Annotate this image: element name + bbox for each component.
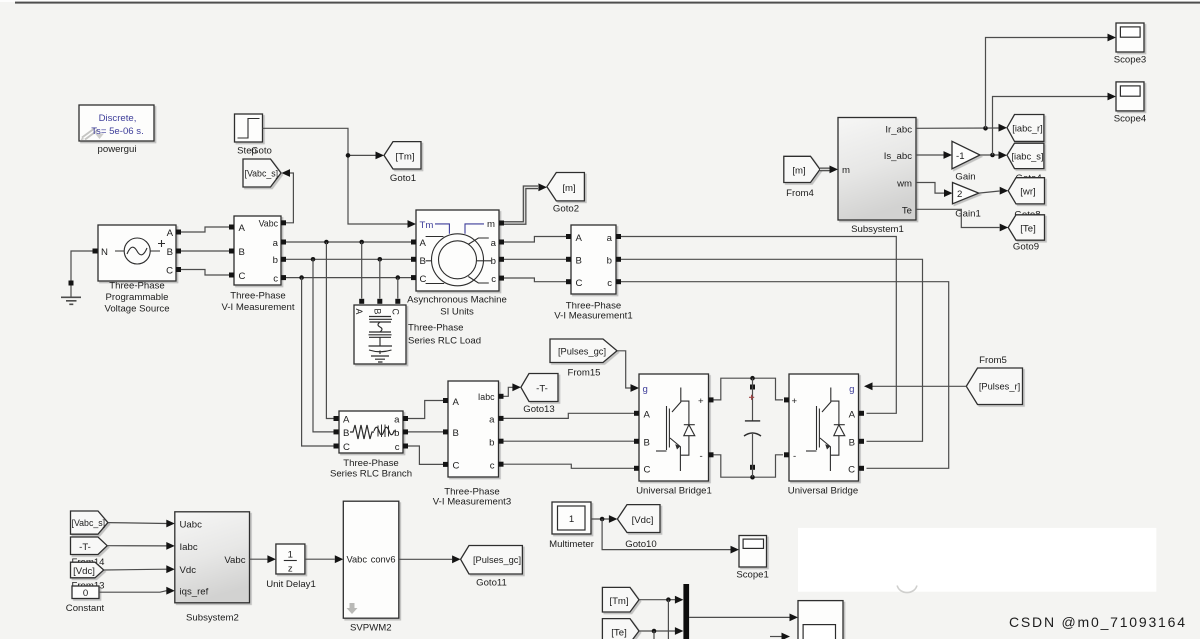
- svg-text:C: C: [576, 278, 583, 289]
- svg-text:Multimeter: Multimeter: [549, 539, 595, 550]
- svg-text:[Tm]: [Tm]: [395, 152, 414, 163]
- wire gain2 to goto wr: [979, 191, 1000, 193]
- svg-text:SVPWM2: SVPWM2: [350, 623, 392, 634]
- wire drop row b to load B: [379, 259, 381, 298]
- wire unit delay to svpwm2: [305, 558, 335, 560]
- wires from tags to subsystem2: [108, 522, 167, 525]
- wire branch b to VIM3 B: [408, 431, 443, 433]
- svg-text:Three-Phase: Three-Phase: [343, 458, 398, 469]
- svg-text:B: B: [453, 428, 459, 439]
- goto2 tag m: [547, 173, 585, 201]
- svg-text:[m]: [m]: [792, 166, 805, 177]
- from tag Tm (bottom): [602, 587, 639, 612]
- svg-text:[wr]: [wr]: [1020, 187, 1035, 198]
- scope5 block (bottom, clipped): [798, 601, 843, 639]
- svg-text:Scope3: Scope3: [1114, 55, 1147, 66]
- svg-text:B: B: [644, 438, 650, 449]
- svg-text:iqs_ref: iqs_ref: [180, 587, 209, 598]
- wire source A to VIM A: [181, 227, 229, 232]
- asynchronous machine SI units block: [416, 210, 499, 291]
- svg-text:C: C: [391, 309, 401, 316]
- svg-text:B: B: [373, 309, 383, 315]
- svg-text:g: g: [643, 384, 648, 395]
- wire VIM1 a to bridge2 A: [621, 237, 896, 414]
- svg-text:N: N: [101, 247, 108, 258]
- VIM1 port squares: [566, 234, 571, 239]
- svg-text:a: a: [607, 233, 613, 244]
- powergui sample time text: [91, 113, 144, 137]
- svg-text:A: A: [849, 410, 856, 421]
- svg-text:C: C: [166, 266, 173, 277]
- from15 tag Pulses_gc: [550, 339, 617, 363]
- svg-text:C: C: [453, 461, 460, 472]
- svg-text:c: c: [490, 460, 495, 471]
- goto11 tag Pulses_gc: [461, 546, 523, 575]
- svg-text:Universal Bridge: Universal Bridge: [788, 486, 858, 497]
- scope4 block: [1116, 82, 1144, 111]
- svg-text:Gain1: Gain1: [955, 209, 981, 220]
- svg-text:Ts= 5e-06 s.: Ts= 5e-06 s.: [91, 126, 144, 137]
- goto10 tag Vdc: [617, 505, 660, 533]
- source port squares: [93, 249, 98, 254]
- svg-text:[iabc_s]: [iabc_s]: [1011, 151, 1043, 161]
- VIM3 port squares: [443, 398, 448, 403]
- ground: [61, 281, 81, 305]
- svg-text:Goto2: Goto2: [553, 204, 579, 215]
- svg-text:[Tm]: [Tm]: [609, 596, 628, 607]
- from tag Te (bottom): [602, 619, 639, 639]
- wire VIM3 Iabc to goto13: [504, 387, 513, 396]
- svg-text:From5: From5: [979, 355, 1007, 366]
- svg-text:Voltage Source: Voltage Source: [104, 304, 169, 315]
- goto1 tag Tm: [384, 142, 421, 169]
- svg-text:A: A: [453, 397, 460, 408]
- svg-text:z: z: [288, 564, 293, 575]
- svg-text:+: +: [792, 396, 798, 407]
- bridge1 port squares: [634, 411, 639, 416]
- svg-text:a: a: [489, 415, 495, 426]
- step block: [235, 114, 263, 142]
- svg-text:g: g: [849, 384, 854, 395]
- VIM port squares: [229, 225, 234, 230]
- wire VIM Vabc to goto Vabc_s: [284, 173, 294, 223]
- svg-text:Discrete,: Discrete,: [99, 113, 137, 124]
- svg-text:Subsystem2: Subsystem2: [186, 613, 239, 624]
- svg-text:b: b: [273, 255, 278, 266]
- wire Te to goto Te9: [916, 209, 1000, 227]
- svg-text:b: b: [491, 256, 496, 267]
- svg-text:B: B: [343, 428, 349, 439]
- machine icon Tm lead: [435, 224, 449, 234]
- powergui overlay pencil icon: [81, 128, 105, 141]
- scope3 block: [1116, 23, 1144, 52]
- wire drop row c to load C: [397, 278, 399, 299]
- svg-text:C: C: [239, 271, 246, 282]
- svg-text:Goto11: Goto11: [476, 578, 507, 589]
- subsystem2 block: [175, 512, 250, 603]
- svg-text:m: m: [487, 219, 495, 230]
- goto tag iabc_r: [1007, 115, 1044, 142]
- svg-text:V-I Measurement3: V-I Measurement3: [433, 497, 511, 508]
- wire VIM3 a to bridge1 A: [504, 413, 635, 418]
- svg-text:B: B: [239, 247, 245, 258]
- wire VIM1 b to bridge2 B: [621, 259, 923, 441]
- svg-text:Vabc: Vabc: [224, 555, 245, 566]
- svg-text:+: +: [698, 396, 704, 407]
- svg-text:Unit Delay1: Unit Delay1: [266, 579, 316, 590]
- wire wm to gain 2: [916, 183, 944, 194]
- bridge2 port squares: [784, 397, 789, 402]
- branch port squares: [334, 416, 339, 421]
- svg-text:Tm: Tm: [420, 220, 434, 231]
- svg-text:Gain: Gain: [955, 172, 975, 183]
- svg-text:B: B: [420, 256, 426, 267]
- from tag Vabc_s (bottom left): [71, 511, 108, 534]
- powergui block: [79, 105, 154, 141]
- wire mux to scope5: [689, 616, 789, 618]
- machine icon rotor stubs: [468, 238, 489, 245]
- top white strip: [0, 0, 1200, 2]
- wire row b VIM to machine B: [286, 258, 411, 260]
- svg-text:Series RLC Branch: Series RLC Branch: [330, 469, 412, 480]
- from4 tag m: [784, 156, 820, 182]
- svg-text:B: B: [576, 256, 582, 267]
- wire gain-1 to goto iabc_s and scope4: [980, 154, 999, 156]
- wire branch a to VIM3 A: [408, 401, 443, 419]
- wire source C to VIM C: [181, 270, 229, 276]
- svg-text:A: A: [644, 410, 651, 421]
- svg-text:C: C: [644, 465, 651, 476]
- machine port squares: [411, 240, 416, 245]
- svg-text:conv6: conv6: [371, 555, 396, 565]
- svg-text:[Pulses_gc]: [Pulses_gc]: [558, 347, 606, 357]
- wire step to goto1 and machine Tm: [263, 128, 349, 155]
- svg-text:Vabc: Vabc: [347, 555, 368, 565]
- scope1 block: [739, 536, 767, 568]
- goto tag wr: [1008, 178, 1044, 204]
- wire from15 to bridge1 g: [617, 351, 631, 388]
- branch R-L icon: [350, 425, 396, 440]
- gain 2 triangle: [953, 183, 979, 204]
- svg-text:Is_abc: Is_abc: [884, 151, 912, 162]
- from tag Vdc (bottom left): [71, 562, 104, 578]
- wire Te tag to mux: [639, 630, 675, 632]
- three-phase V-I measurement block: [234, 216, 281, 285]
- svg-text:[Pulses_gc]: [Pulses_gc]: [473, 555, 521, 565]
- svg-text:[Pulses_r]: [Pulses_r]: [979, 382, 1020, 392]
- svg-text:[iabc_r]: [iabc_r]: [1012, 124, 1043, 134]
- from5 tag Pulses_r: [966, 368, 1022, 405]
- constant block: [72, 586, 99, 599]
- wire machine c to VIM1 C: [504, 278, 566, 282]
- svg-text:CSDN @m0_71093164: CSDN @m0_71093164: [1009, 614, 1185, 630]
- svg-text:Subsystem1: Subsystem1: [851, 224, 904, 235]
- wire VIM3 b to bridge1 B: [504, 440, 635, 442]
- svg-text:Three-Phase: Three-Phase: [408, 323, 463, 334]
- bridge1 IGBT+diode icon: [656, 388, 695, 472]
- svg-text:Iabc: Iabc: [180, 542, 198, 553]
- svg-text:c: c: [273, 274, 278, 285]
- svg-text:Scope1: Scope1: [736, 570, 769, 581]
- subsystem1 block: [838, 118, 916, 221]
- unit delay block: [276, 544, 305, 575]
- svg-text:Three-Phase: Three-Phase: [109, 281, 164, 292]
- svg-text:A: A: [576, 233, 583, 244]
- svg-text:A: A: [420, 238, 427, 249]
- goto tag Vabc_s (upper): [243, 159, 281, 187]
- svg-text:Ir_abc: Ir_abc: [885, 124, 912, 135]
- three-phase programmable voltage source block: [98, 225, 176, 281]
- svg-text:Asynchronous Machine: Asynchronous Machine: [407, 295, 507, 306]
- wire from5 to bridge2 g: [873, 385, 967, 387]
- svg-text:Scope4: Scope4: [1114, 114, 1147, 125]
- svg-text:[Vabc_s]: [Vabc_s]: [72, 518, 106, 528]
- wire Tm tag to mux: [639, 599, 675, 601]
- mux bar: [683, 584, 689, 639]
- junction dots on rows: [324, 240, 329, 245]
- svg-text:c: c: [395, 442, 400, 453]
- svg-text:B: B: [167, 247, 173, 258]
- svg-text:wm: wm: [896, 179, 912, 190]
- svg-text:a: a: [273, 238, 279, 249]
- machine icon m lead: [465, 224, 484, 234]
- wire drop row a to RLC branch A: [326, 242, 333, 419]
- load RLC icon: [369, 317, 393, 363]
- machine icon circles: [432, 234, 484, 286]
- wire drop row c to RLC branch C: [302, 278, 334, 446]
- universal bridge1 block: [639, 374, 709, 481]
- wire second input to bottom scope: [770, 636, 782, 638]
- wire N to ground: [71, 251, 93, 281]
- svg-text:A: A: [167, 228, 174, 239]
- svg-text:B: B: [849, 438, 855, 449]
- svg-text:Three-Phase: Three-Phase: [230, 291, 285, 302]
- svg-text:c: c: [607, 278, 612, 289]
- svg-text:[Vabc_s]: [Vabc_s]: [245, 168, 279, 178]
- goto tag iabc_s: [1007, 143, 1044, 168]
- wire svpwm2 to goto11: [399, 558, 452, 560]
- svg-text:SI Units: SI Units: [440, 307, 474, 318]
- gain -1 triangle: [952, 141, 980, 169]
- wire drop row a to load A: [361, 242, 363, 299]
- svg-text:1: 1: [569, 514, 574, 525]
- svg-text:0: 0: [83, 588, 88, 599]
- svg-text:C: C: [420, 274, 427, 285]
- svg-text:2: 2: [957, 189, 962, 200]
- wire drop row b to RLC branch B: [313, 259, 334, 432]
- three-phase series RLC branch block: [339, 411, 403, 453]
- wire multimeter to goto10 and scope1: [591, 518, 609, 520]
- universal bridge block (right): [789, 374, 859, 481]
- wire machine b to VIM1 B: [504, 258, 566, 260]
- svg-text:m: m: [842, 165, 850, 176]
- three-phase V-I measurement1 block: [571, 225, 616, 294]
- wire Is_abc to gain -1: [916, 154, 944, 156]
- wire VIM3 c to bridge1 C: [504, 464, 635, 468]
- svg-text:Goto1: Goto1: [390, 173, 416, 184]
- svg-text:Vdc: Vdc: [180, 565, 197, 576]
- svg-text:[Te]: [Te]: [1020, 224, 1035, 235]
- svg-text:Goto13: Goto13: [523, 404, 554, 415]
- multimeter block: [552, 502, 591, 534]
- svg-text:[Vdc]: [Vdc]: [632, 515, 654, 526]
- goto tag Te: [1008, 215, 1044, 240]
- wire branch c to VIM3 C: [408, 446, 443, 464]
- faint watermark arc: [897, 586, 917, 593]
- svg-text:A: A: [354, 309, 364, 315]
- svg-text:Goto10: Goto10: [625, 539, 656, 550]
- svg-text:Constant: Constant: [66, 603, 105, 614]
- svg-text:From4: From4: [786, 188, 814, 199]
- svg-text:powergui: powergui: [98, 144, 137, 155]
- svg-text:Te: Te: [902, 205, 912, 216]
- svg-text:1: 1: [288, 550, 293, 561]
- svg-text:Universal Bridge1: Universal Bridge1: [636, 486, 712, 497]
- svpwm2 block: [343, 501, 399, 618]
- svg-text:-: -: [793, 451, 796, 462]
- svg-text:a: a: [491, 238, 497, 249]
- svg-text:From15: From15: [567, 368, 600, 379]
- svg-text:a: a: [394, 415, 400, 426]
- white watermark patch: [798, 528, 1156, 592]
- top toolbar divider line: [15, 2, 1200, 4]
- svg-text:b: b: [607, 256, 612, 267]
- three-phase V-I measurement3 block: [448, 381, 499, 477]
- svg-text:A: A: [239, 223, 246, 234]
- goto13 tag -T-: [521, 374, 558, 402]
- svg-text:C: C: [848, 465, 855, 476]
- svg-text:b: b: [489, 437, 494, 448]
- svg-text:A: A: [343, 415, 350, 426]
- dc link top rail: [714, 378, 784, 400]
- svg-text:b: b: [394, 428, 399, 439]
- three-phase series RLC load block: [354, 305, 406, 364]
- bus from4 to subsystem1 m: [820, 167, 831, 171]
- from tag -T- (bottom left): [71, 537, 108, 555]
- wire subsystem2 to unit delay: [250, 558, 268, 560]
- load port squares: [359, 299, 364, 304]
- wire row c VIM to machine C: [286, 277, 411, 279]
- wire machine a to VIM1 A: [504, 237, 566, 243]
- wire Ir_abc to goto iabc_r and scope3: [916, 127, 999, 129]
- svg-text:Goto: Goto: [251, 146, 272, 157]
- bus machine m to goto2: [504, 187, 538, 223]
- bridge2 IGBT+diode icon: [806, 388, 845, 472]
- svg-text:-T-: -T-: [536, 384, 548, 395]
- wire row a VIM to machine A: [286, 241, 411, 243]
- svg-text:Programmable: Programmable: [106, 292, 169, 303]
- svg-text:V-I Measurement1: V-I Measurement1: [554, 311, 632, 322]
- svg-text:c: c: [491, 274, 496, 285]
- svg-text:V-I Measurement: V-I Measurement: [221, 302, 294, 313]
- svg-text:Goto9: Goto9: [1013, 242, 1039, 253]
- svg-text:Series RLC Load: Series RLC Load: [408, 336, 481, 347]
- wire source B to VIM B: [181, 250, 229, 252]
- svg-text:[Vdc]: [Vdc]: [73, 566, 95, 577]
- wire VIM1 c to bridge2 C: [621, 282, 949, 469]
- svg-text:[Te]: [Te]: [611, 628, 626, 639]
- machine icon stator stubs: [426, 236, 444, 238]
- svg-text:-: -: [700, 451, 703, 462]
- svg-text:C: C: [343, 442, 350, 453]
- svg-text:Uabc: Uabc: [180, 520, 203, 531]
- svg-text:[m]: [m]: [562, 183, 575, 194]
- svg-text:Vabc: Vabc: [259, 219, 279, 229]
- svg-text:Iabc: Iabc: [478, 392, 495, 402]
- svg-text:-T-: -T-: [79, 542, 91, 553]
- dc link capacitor: [744, 376, 761, 480]
- dc link bottom rail: [714, 455, 784, 477]
- junction step wire: [346, 153, 351, 158]
- svg-text:-1: -1: [956, 151, 965, 162]
